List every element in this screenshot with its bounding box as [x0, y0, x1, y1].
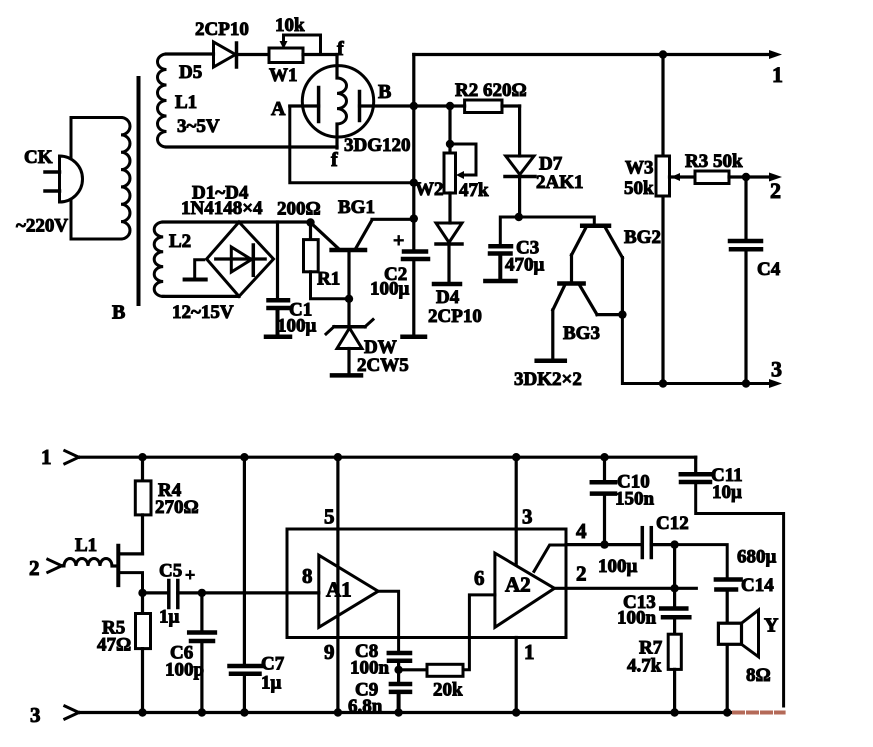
- ground C2: [403, 335, 426, 340]
- node c7 bottom: [240, 708, 248, 716]
- svg-text:2CW5: 2CW5: [357, 355, 409, 376]
- node pin3 top: [512, 453, 520, 461]
- svg-text:4: 4: [576, 519, 587, 543]
- svg-text:+: +: [185, 565, 195, 585]
- resistor R5: [141, 593, 144, 614]
- op-amp A2: [495, 553, 555, 627]
- svg-text:20k: 20k: [433, 680, 463, 701]
- resistor R4: [141, 457, 144, 481]
- svg-text:47Ω: 47Ω: [97, 635, 131, 656]
- diode D7: [506, 156, 534, 175]
- node pin1 bottom: [512, 708, 520, 716]
- node r5 bottom: [138, 708, 146, 716]
- svg-text:10μ: 10μ: [712, 482, 742, 503]
- node B junction: [410, 102, 418, 110]
- svg-text:100p: 100p: [165, 660, 204, 681]
- svg-text:Y: Y: [764, 615, 779, 637]
- svg-text:3: 3: [522, 505, 533, 529]
- wire A return: [290, 106, 414, 183]
- resistor R3: [695, 171, 729, 184]
- svg-text:8: 8: [302, 564, 313, 588]
- svg-text:10k: 10k: [275, 15, 305, 36]
- bridge AC mark: [195, 260, 204, 276]
- svg-text:L1: L1: [175, 92, 197, 113]
- svg-text:100n: 100n: [350, 658, 390, 679]
- wire main vertical: [412, 55, 415, 252]
- svg-text:R2 620Ω: R2 620Ω: [455, 80, 527, 101]
- svg-text:3DG120: 3DG120: [344, 135, 411, 156]
- transformer core: [137, 78, 141, 304]
- potentiometer W1 10k: [269, 48, 303, 63]
- svg-text:3: 3: [771, 357, 782, 382]
- capacitor C10: [603, 457, 606, 481]
- svg-text:+: +: [393, 230, 404, 252]
- capacitor C6: [200, 593, 203, 632]
- svg-text:D5: D5: [179, 62, 202, 83]
- svg-text:C5: C5: [159, 561, 182, 582]
- svg-text:100n: 100n: [617, 608, 657, 629]
- wire BG2 base: [519, 217, 595, 225]
- svg-text:9: 9: [324, 640, 335, 664]
- svg-text:C14: C14: [741, 575, 774, 596]
- capacitor C11: [694, 457, 697, 473]
- svg-text:6: 6: [474, 566, 485, 590]
- wire collector to rail 3: [622, 315, 771, 384]
- wire W3 vertical: [661, 55, 664, 157]
- svg-text:8Ω: 8Ω: [746, 665, 771, 686]
- svg-text:2CP10: 2CP10: [428, 306, 482, 327]
- svg-text:3DK2×2: 3DK2×2: [514, 369, 582, 390]
- node D7 junction: [515, 213, 523, 221]
- svg-text:B: B: [378, 81, 391, 103]
- svg-text:BG2: BG2: [624, 227, 661, 248]
- transistor VT leads: [118, 552, 142, 555]
- svg-text:470μ: 470μ: [505, 255, 545, 276]
- svg-text:47k: 47k: [459, 180, 489, 201]
- node C10 bottom: [600, 540, 608, 548]
- wire pin5-9: [336, 457, 339, 712]
- ground DW: [332, 373, 361, 378]
- wire rail 1 bottom: [79, 456, 696, 459]
- node BG collectors: [618, 310, 626, 318]
- svg-text:2: 2: [29, 556, 40, 580]
- svg-text:12~15V: 12~15V: [172, 302, 234, 323]
- svg-text:D4: D4: [436, 287, 460, 308]
- node BG1 collector: [410, 214, 418, 222]
- dashed corner mark: [734, 711, 784, 715]
- wire pin4: [534, 545, 566, 571]
- transformer CK primary winding: [71, 118, 121, 240]
- winding L2 secondary: [154, 222, 163, 296]
- svg-text:f: f: [331, 149, 338, 171]
- svg-text:3~5V: 3~5V: [177, 116, 220, 137]
- svg-text:200Ω: 200Ω: [277, 199, 321, 220]
- svg-text:2CP10: 2CP10: [195, 19, 249, 40]
- svg-text:1N4148×4: 1N4148×4: [181, 198, 263, 219]
- svg-text:R3 50k: R3 50k: [685, 151, 743, 172]
- wire pin2 output: [555, 587, 697, 590]
- wire pin1: [515, 638, 518, 713]
- svg-text:50k: 50k: [624, 178, 654, 199]
- svg-text:CK: CK: [24, 147, 53, 168]
- svg-text:100μ: 100μ: [598, 556, 638, 577]
- svg-text:1: 1: [772, 62, 783, 87]
- svg-text:1μ: 1μ: [261, 673, 282, 694]
- 3DG120 left plate: [317, 88, 321, 122]
- node c6 bottom: [198, 708, 206, 716]
- svg-text:1μ: 1μ: [159, 607, 180, 628]
- svg-text:270Ω: 270Ω: [155, 497, 199, 518]
- node BG1 emitter: [306, 218, 314, 226]
- IC box: [287, 529, 566, 638]
- svg-text:C12: C12: [656, 513, 689, 534]
- node C12 out: [670, 540, 678, 548]
- svg-text:R1: R1: [317, 269, 340, 290]
- diode D5: [214, 42, 236, 67]
- node C5 out: [198, 589, 206, 597]
- node pin9 bottom: [334, 708, 342, 716]
- wire rail 3 bottom: [79, 711, 733, 714]
- capacitor C8: [389, 651, 410, 656]
- node pin5 top: [334, 453, 342, 461]
- wire pin8 input: [202, 591, 319, 594]
- wire C12-C13: [673, 545, 676, 589]
- node R1 base junction: [345, 295, 353, 303]
- diode D4: [436, 223, 462, 243]
- svg-text:f: f: [337, 38, 344, 60]
- node C8-C9: [394, 666, 402, 674]
- svg-text:100μ: 100μ: [277, 316, 317, 337]
- svg-text:L1: L1: [75, 535, 97, 556]
- svg-text:~220V: ~220V: [16, 216, 68, 237]
- svg-text:2: 2: [770, 178, 781, 203]
- wire L1 bottom to f: [167, 145, 338, 148]
- wire A1 output: [378, 591, 398, 652]
- resistor R7: [668, 634, 681, 669]
- svg-text:C4: C4: [757, 259, 781, 280]
- transistor BG2: [582, 224, 609, 229]
- svg-text:W3: W3: [625, 158, 654, 179]
- ground C3: [485, 279, 515, 284]
- svg-text:BG1: BG1: [338, 197, 375, 218]
- capacitor C12: [641, 528, 645, 558]
- node speaker bottom: [723, 708, 731, 716]
- zener DW: [334, 325, 365, 329]
- resistor R2: [446, 102, 454, 110]
- svg-text:B: B: [112, 302, 125, 324]
- speaker Y: [718, 623, 741, 644]
- svg-text:BG3: BG3: [563, 323, 600, 344]
- inductor L1 bottom: [64, 559, 112, 567]
- op-amp A1: [319, 555, 378, 627]
- svg-text:150n: 150n: [615, 489, 655, 510]
- svg-text:5: 5: [324, 505, 335, 529]
- magnetic transistor 3DG120 body: [302, 66, 373, 137]
- node r4 top: [138, 453, 146, 461]
- node c10 top: [600, 453, 608, 461]
- svg-text:2: 2: [576, 562, 587, 586]
- resistor R6 20k: [399, 668, 427, 671]
- ground D4: [434, 282, 460, 287]
- svg-text:2AK1: 2AK1: [536, 172, 584, 193]
- bridge rectifier D1-D4: [207, 222, 274, 296]
- node r7 bottom: [670, 708, 678, 716]
- svg-text:A: A: [271, 98, 286, 120]
- svg-text:C7: C7: [261, 654, 285, 675]
- capacitor C13: [673, 588, 676, 607]
- svg-text:L2: L2: [169, 231, 191, 252]
- svg-text:W1: W1: [269, 65, 298, 86]
- ground BG3 emitter: [537, 358, 565, 363]
- resistor R1: [309, 223, 312, 240]
- winding L1 secondary: [158, 54, 167, 147]
- node c9 bottom: [394, 708, 402, 716]
- svg-text:1: 1: [524, 640, 535, 664]
- capacitor C9: [397, 670, 400, 683]
- capacitor C1: [269, 298, 289, 303]
- capacitor C3: [500, 217, 519, 245]
- wire f top: [335, 55, 338, 67]
- node source junction: [138, 589, 146, 597]
- lead A: [290, 104, 319, 107]
- capacitor C5: [143, 591, 167, 594]
- ground C1: [266, 335, 290, 340]
- svg-text:A2: A2: [505, 573, 531, 597]
- svg-text:100μ: 100μ: [370, 279, 410, 300]
- svg-text:680μ: 680μ: [737, 547, 777, 568]
- wire top rail 1: [414, 53, 771, 56]
- transistor VT gate bar: [116, 546, 120, 585]
- 3DG120 internal coil: [335, 66, 338, 78]
- capacitor C4: [744, 177, 747, 240]
- wire bridge output: [276, 222, 279, 299]
- svg-text:W2: W2: [415, 179, 444, 200]
- 3DG120 right plate: [358, 92, 362, 121]
- svg-text:1: 1: [41, 445, 52, 469]
- potentiometer W3: [656, 156, 670, 196]
- wire pin3: [515, 457, 518, 564]
- transistor BG1: [332, 248, 365, 253]
- lead B: [360, 104, 414, 107]
- node c7 top: [240, 453, 248, 461]
- capacitor C14: [716, 577, 741, 582]
- node C13 top: [670, 584, 678, 592]
- potentiometer W2: [448, 106, 451, 153]
- svg-text:4.7k: 4.7k: [627, 656, 662, 677]
- plug CK: [60, 156, 83, 202]
- transistor BG3: [559, 281, 583, 286]
- capacitor C7: [243, 457, 246, 665]
- wire to C14: [675, 545, 728, 578]
- node A-return junction: [410, 179, 418, 187]
- svg-text:3: 3: [30, 703, 41, 727]
